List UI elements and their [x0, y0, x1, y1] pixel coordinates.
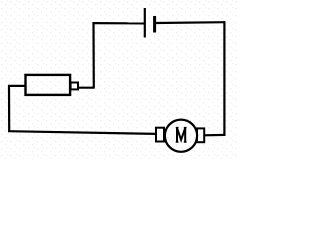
- wire: bottom-right to motor terminal: [204, 134, 225, 137]
- motor letter M: [176, 128, 187, 143]
- motor left brush terminal: [156, 128, 164, 142]
- battery short plate (-): [153, 16, 156, 33]
- wire: resistor right lead: [78, 87, 95, 89]
- resistor terminal tab: [71, 83, 78, 90]
- wire: bottom horizontal: [8, 131, 157, 134]
- motor right brush terminal: [197, 128, 204, 142]
- battery long plate (+): [144, 8, 146, 38]
- wire: right vertical: [223, 21, 225, 136]
- wire: left vertical: [8, 86, 10, 132]
- wire: top horizontal, right of battery: [156, 21, 225, 24]
- wire: resistor left lead: [8, 85, 26, 87]
- wire: top-left vertical (battery + to resistor lead): [92, 22, 95, 87]
- wire: top horizontal, left of battery: [93, 22, 145, 24]
- motor M circle: [165, 120, 197, 152]
- resistor box: [26, 75, 71, 95]
